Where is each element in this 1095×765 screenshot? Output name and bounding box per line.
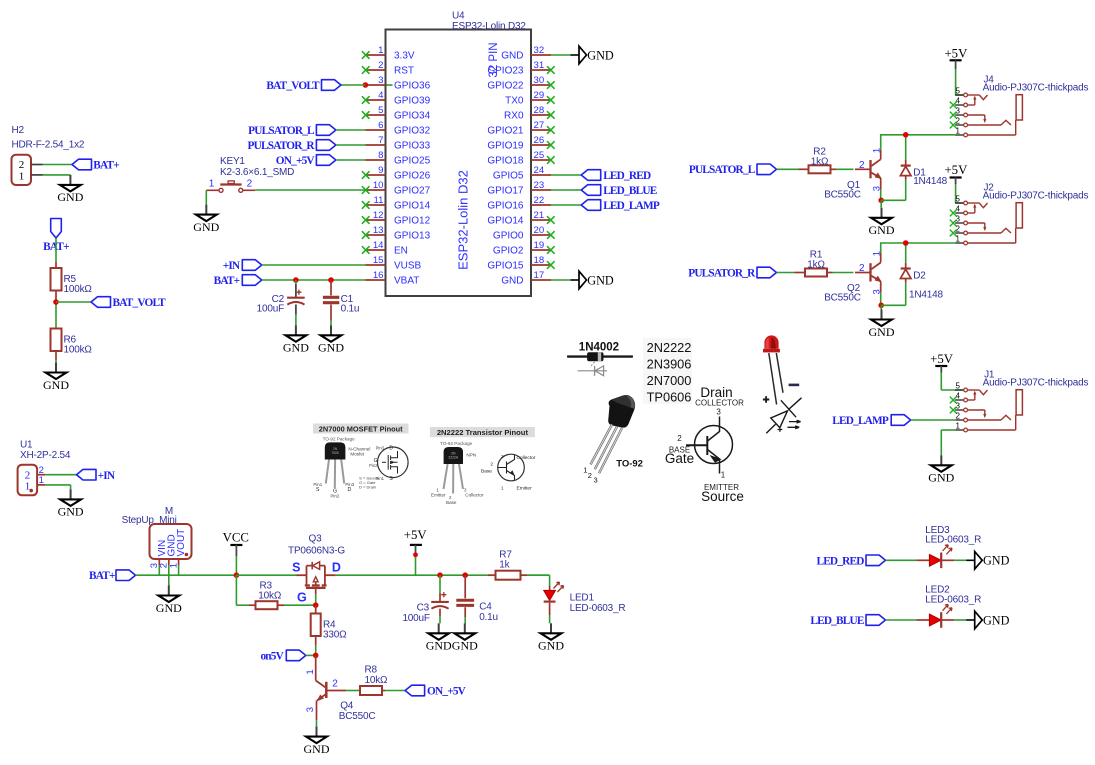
svg-text:Pin2: Pin2 [369,463,378,468]
wire H2 pin 2 to BAT+ [43,164,73,166]
svg-text:31: 31 [534,60,545,71]
ground (J1) [928,455,954,484]
power VCC [223,531,249,557]
svg-text:3: 3 [716,407,721,416]
resistor R1 1k [795,250,833,277]
svg-text:26: 26 [534,135,545,146]
svg-text:1: 1 [721,471,726,480]
ground flag (U4 pin 32) [571,46,614,64]
svg-text:10kΩ: 10kΩ [258,590,282,601]
svg-text:20: 20 [534,225,545,236]
svg-text:8: 8 [378,150,383,161]
ground (Q1) [869,208,895,237]
svg-text:1N4148: 1N4148 [909,290,943,301]
U4 pin 32 (GND) [501,45,551,62]
svg-text:ON_+5V: ON_+5V [276,155,316,167]
svg-text:RST: RST [394,66,414,77]
LED LED2 LED-0603_R [916,585,981,628]
connector H2 HDR-F-2.54_1x2 [12,125,85,185]
svg-text:PULSATOR_R: PULSATOR_R [248,140,316,152]
wire U1 pin 1 to ground [45,485,70,490]
transistor Q4 BC550C [305,655,376,721]
capacitor C3 100uF [402,575,448,624]
U4 pin 16 (VBAT) [366,270,420,287]
svg-text:Audio-PJ307C-thickpads: Audio-PJ307C-thickpads [983,190,1089,201]
ground (M) [156,586,182,615]
svg-text:0.1u: 0.1u [479,612,498,623]
image TO-92 package [583,395,643,484]
wire +5V to J2 pin 5 [955,184,963,203]
ground (LED1) [538,623,564,652]
node rail J2 / D2 [903,240,909,246]
svg-text:BAT+: BAT+ [214,275,240,287]
svg-text:GPIO12: GPIO12 [394,216,431,227]
svg-text:15: 15 [373,255,384,266]
net flag PULSATOR_L (at R2) [689,164,777,176]
svg-text:TP0606: TP0606 [647,390,692,405]
wire U4 to LED_RED flag [551,174,581,176]
connector J1 Audio-PJ307C-thickpads [950,369,1089,432]
svg-text:TO-92: TO-92 [616,458,643,469]
svg-text:100uF: 100uF [402,613,429,624]
svg-text:GPIO14: GPIO14 [394,201,431,212]
U4 pin 27 (GPIO21) [487,120,554,137]
U4 pin 14 (EN) [362,240,408,257]
svg-text:ESP32-Lolin D32: ESP32-Lolin D32 [452,21,526,32]
connector J4 Audio-PJ307C-thickpads [950,74,1089,137]
svg-text:GPIO18: GPIO18 [487,156,524,167]
svg-text:1k: 1k [499,559,510,570]
ground (KEY1) [193,205,219,234]
svg-text:PULSATOR_R: PULSATOR_R [688,267,756,279]
wire R5 to R6 (BAT_VOLT node) [55,300,57,328]
svg-text:GPIO25: GPIO25 [394,156,431,167]
svg-text:KEY1: KEY1 [220,156,245,167]
svg-text:PULSATOR_L: PULSATOR_L [689,164,756,176]
svg-text:PULSATOR_L: PULSATOR_L [248,125,315,137]
svg-text:3: 3 [378,75,383,86]
svg-text:1kΩ: 1kΩ [807,260,825,271]
resistor R7 1k [488,549,527,579]
svg-text:2: 2 [25,469,31,481]
U4 pin 25 (GPIO18) [487,150,554,167]
svg-text:C3: C3 [417,603,430,614]
wire Q1 emitter to ground [880,200,882,208]
wire M pin2 GND to ground [168,565,170,586]
svg-text:2: 2 [677,434,682,443]
svg-text:Emitter: Emitter [517,485,533,491]
node rail J4 / D1 [903,132,909,138]
wire BAT+ to U4 pin 16 [262,279,366,281]
svg-text:TO-92 Package: TO-92 Package [440,441,473,446]
wire node to BAT_VOLT flag [56,301,91,303]
U4 pin 3 (GPIO36) [366,75,431,92]
resistor R2 1k [799,146,837,173]
wire J1 pin 1 to ground [941,430,955,455]
svg-text:1N4002: 1N4002 [579,342,619,354]
svg-text:2N7000 MOSFET Pinout: 2N7000 MOSFET Pinout [319,424,403,433]
svg-text:22: 22 [534,195,545,206]
svg-text:23: 23 [534,180,545,191]
capacitor C4 0.1u [456,575,498,623]
svg-text:Base: Base [446,500,457,505]
wire BAT_VOLT to U4 pin 3 [341,84,365,86]
svg-text:GND: GND [983,613,1010,627]
svg-text:U4: U4 [452,11,465,22]
transistor Q3 TP0606N3-G (P-MOSFET) [288,534,345,605]
svg-text:16: 16 [373,270,384,281]
U4 pin 24 (GPIO5) [493,165,551,182]
wire KEY1 pin 1 to ground [205,190,207,204]
U4 pin 29 (TX0) [505,90,554,107]
wire BAT+ rail to VCC node [136,574,237,576]
svg-text:GPIO13: GPIO13 [394,231,431,242]
svg-text:Pin2: Pin2 [331,494,340,499]
node Q2 emitter [878,303,884,309]
U4 pin 9 (GPIO26) [362,165,431,182]
svg-text:100kΩ: 100kΩ [64,345,93,356]
svg-text:3: 3 [305,707,316,712]
svg-text:GND: GND [283,341,309,355]
power +5V (J1) [930,352,954,373]
label D2 part 1N4148 [909,290,943,301]
svg-text:GPIO32: GPIO32 [394,126,431,137]
svg-text:TP0606N3-G: TP0606N3-G [288,545,345,556]
svg-text:2N2222 Transistor Pinout: 2N2222 Transistor Pinout [437,428,529,437]
svg-text:14: 14 [373,240,384,251]
svg-text:GND: GND [43,378,69,392]
svg-text:1: 1 [501,485,504,490]
svg-text:D: D [389,446,393,452]
ground flag (U4 pin 17) [571,271,614,289]
switch KEY1 K2-3.6x6.1_SMD [206,156,294,193]
svg-text:VBAT: VBAT [394,276,419,287]
svg-text:3: 3 [594,476,598,485]
power +5V (center) [404,528,428,553]
capacitor C2 100uF [257,280,305,325]
svg-text:LED-0603_R: LED-0603_R [570,603,626,614]
wire +5V to J1 pin 5 [941,373,963,391]
svg-text:BC550C: BC550C [824,190,861,201]
wire tick inside U4 at pin 3 [387,84,393,86]
svg-text:29: 29 [534,90,545,101]
svg-text:3: 3 [501,454,504,459]
node C2 junction [293,277,299,283]
U4 pin 1 (3.3V) [362,45,415,62]
U4 pin 23 (GPIO17) [487,180,551,197]
svg-text:2: 2 [859,263,865,274]
wire U4 to LED_LAMP flag [551,204,581,206]
svg-text:Gate: Gate [665,451,694,466]
svg-text:2: 2 [588,471,592,480]
svg-text:5: 5 [378,105,383,116]
svg-text:21: 21 [534,210,545,221]
wire LED_RED to LED3 [886,559,917,561]
svg-text:GND: GND [501,276,523,287]
U4 pin 11 (GPIO14) [362,195,431,212]
diode D2 1N4148 [900,263,926,283]
svg-text:ON_+5V: ON_+5V [427,686,467,698]
node C1 junction [328,277,334,283]
U4 pin 6 (GPIO32) [366,120,431,137]
resistor R5 100k [51,262,93,300]
svg-text:GPIO36: GPIO36 [394,81,431,92]
net flag BAT+ (at U4) [214,275,262,287]
wire R4 to on5V node [315,645,317,655]
svg-text:GPIO16: GPIO16 [487,201,524,212]
svg-text:Base: Base [481,468,492,474]
svg-text:4: 4 [955,392,960,401]
U4 pin 12 (GPIO12) [362,210,431,227]
svg-text:ESP32-Lolin D32: ESP32-Lolin D32 [456,170,471,270]
net flag PULSATOR_R [248,140,336,152]
svg-text:GND: GND [587,273,614,287]
svg-text:7: 7 [378,135,383,146]
svg-text:+5V: +5V [404,528,428,542]
svg-text:100kΩ: 100kΩ [64,284,93,295]
U4 pin 28 (RX0) [504,105,555,122]
net flag BAT+ (divider) [43,219,69,254]
svg-text:1: 1 [305,669,316,674]
wire U1 pin 2 to +IN [45,474,76,476]
label D1 part 1N4148 [913,176,947,187]
wire +5V to J4 pin 5 [955,69,963,95]
svg-text:BAT+: BAT+ [89,570,115,582]
wire R6 to ground [55,360,57,363]
svg-text:1: 1 [378,45,383,56]
svg-text:2N7000: 2N7000 [647,373,692,388]
image red LED photo [763,335,802,433]
svg-text:GPIO2: GPIO2 [493,246,524,257]
svg-text:24: 24 [534,165,545,176]
node C4 rail [462,572,468,578]
svg-text:GPIO15: GPIO15 [487,261,524,272]
svg-text:6: 6 [378,120,383,131]
ground (Q2) [869,310,895,339]
svg-text:GPIO14: GPIO14 [487,216,524,227]
ground (C4) [452,623,478,652]
ground (Q4) [304,727,330,756]
svg-text:25: 25 [534,150,545,161]
svg-text:2N2222: 2N2222 [647,340,692,355]
wire D2 to emitter node [881,283,906,306]
wire rail to D2 [905,243,907,263]
svg-text:LED_RED: LED_RED [816,556,864,568]
svg-text:TX0: TX0 [505,96,524,107]
net flag BAT_VOLT (divider) [91,297,166,309]
svg-text:D = Drain: D = Drain [359,485,376,490]
U4 pin 4 (GPIO39) [362,90,431,107]
U4 pin 30 (GPIO22) [487,75,554,92]
ground (C2) [283,325,309,354]
connector U1 XH-2P-2.54 [18,440,71,496]
svg-text:GND: GND [538,639,564,653]
svg-text:+5V: +5V [944,163,968,177]
image transistor pin-naming symbol [665,385,744,504]
svg-text:Audio-PJ307C-thickpads: Audio-PJ307C-thickpads [983,82,1089,93]
svg-text:G: G [297,590,307,604]
ground (H2) [57,175,83,204]
wire Q4 base to R8 [346,690,360,692]
wire U4 pin 17 to ground flag [551,279,571,281]
wire Q1 collector rail to J4 [880,134,955,136]
svg-text:GND: GND [58,505,84,519]
svg-text:GPIO27: GPIO27 [394,186,431,197]
svg-text:COLLECTOR: COLLECTOR [695,399,744,408]
wire D1 to emitter node [881,180,906,201]
svg-text:27: 27 [534,120,545,131]
svg-text:GPIO39: GPIO39 [394,96,431,107]
transistor Q2 BC550C [824,251,882,304]
node on5V / Q4 collector [313,653,319,659]
svg-text:2222A: 2222A [448,456,459,460]
svg-text:D2: D2 [913,270,926,281]
wire R8 to ON_+5V [385,690,405,692]
net flag LED_LAMP (at J1) [832,415,910,428]
svg-text:HDR-F-2.54_1x2: HDR-F-2.54_1x2 [12,139,85,150]
ground flag (LED2) [966,611,1009,629]
svg-text:11: 11 [374,195,384,206]
svg-text:32: 32 [534,45,545,56]
svg-text:S: S [292,560,300,574]
svg-text:28: 28 [534,105,545,116]
U4 pin 18 (GPIO15) [487,255,554,272]
svg-text:GPIO23: GPIO23 [487,66,524,77]
svg-text:LED_LAMP: LED_LAMP [603,200,660,212]
wire U4 pin 32 to ground flag [551,54,571,56]
net flag ON_+5V (at U4) [276,155,336,167]
ground (R6) [43,363,69,392]
svg-text:XH-2P-2.54: XH-2P-2.54 [20,450,71,461]
wire Q3 drain rail to +5V [336,574,550,576]
svg-text:on5V: on5V [260,650,284,662]
image part list text [643,338,692,405]
svg-text:30: 30 [534,75,545,86]
wire Q4 emitter to ground [316,720,318,727]
svg-text:VOUT: VOUT [176,529,187,557]
U4 pin 22 (GPIO16) [487,195,551,212]
net flag BAT+ (at M) [89,570,135,582]
wire ON_+5V to U4 pin 8 [336,159,366,161]
svg-text:1kΩ: 1kΩ [811,156,829,167]
svg-text:330Ω: 330Ω [323,630,347,641]
svg-text:K2-3.6×6.1_SMD: K2-3.6×6.1_SMD [220,167,294,178]
U4 pin 10 (GPIO27) [362,180,431,197]
resistor R4 330 [311,605,347,645]
svg-text:9: 9 [378,165,383,176]
wire R1 to Q2 base [833,272,854,274]
svg-text:+IN: +IN [223,260,241,272]
wire Q1 collector to rail [880,135,882,150]
wire LED_LAMP to J1 pin 2 [911,419,955,421]
module M StepUp_Mini [122,506,192,568]
svg-text:1: 1 [209,179,215,190]
U4 pin 31 (GPIO23) [487,60,554,77]
LED LED3 LED-0603_R [916,525,981,568]
wire VCC to rail [235,556,237,575]
U4 pin 8 (GPIO25) [366,150,431,167]
wire U4 to LED_BLUE flag [551,189,581,191]
svg-text:GND: GND [426,639,452,653]
U4 pin 15 (VUSB) [366,255,422,272]
resistor R8 10k [360,665,388,696]
net flag on5V [260,650,305,662]
capacitor C1 0.1u [323,280,359,325]
svg-text:Pin3: Pin3 [376,446,385,451]
ground (C1) [318,325,344,354]
resistor R3 10k [249,580,284,609]
image 2N2222 transistor pinout [430,427,536,505]
wire on5V to node [306,654,316,656]
wire +5V stub [415,553,417,575]
svg-text:10: 10 [373,180,384,191]
net flag ON_+5V (at R8) [405,685,467,697]
U4 pin 21 (GPIO14) [487,210,554,227]
svg-text:GND: GND [983,554,1010,568]
svg-text:GND: GND [57,190,83,204]
wire LED_BLUE to LED2 [886,619,917,621]
svg-text:5: 5 [955,195,960,204]
svg-text:1N4148: 1N4148 [913,176,947,187]
svg-text:2: 2 [491,461,494,466]
svg-text:19: 19 [534,240,545,251]
svg-text:GND: GND [869,325,895,339]
node BAT_VOLT divider [53,299,59,305]
svg-text:Collector: Collector [465,492,484,497]
svg-text:BC550C: BC550C [339,711,376,722]
wire Q1 emitter down [880,190,882,201]
svg-text:GPIO26: GPIO26 [394,171,431,182]
svg-text:1: 1 [19,171,25,183]
svg-text:BAT_VOLT: BAT_VOLT [113,297,167,309]
svg-text:GND: GND [318,341,344,355]
node BAT_VOLT at U4 pin 3 [363,82,369,88]
U4 pin 17 (GND) [501,270,551,287]
svg-text:+5V: +5V [930,352,954,366]
svg-text:2: 2 [859,160,865,171]
svg-text:EN: EN [394,246,408,257]
U4 pin 7 (GPIO33) [366,135,431,152]
wire KEY1 pin 2 to U4 pin 10 [255,189,365,191]
net flag BAT+ (at H2) [72,159,119,172]
ground (U1) [58,489,84,518]
svg-text:2N3906: 2N3906 [647,357,692,372]
svg-text:10kΩ: 10kΩ [365,675,389,686]
net flag LED_BLUE [810,615,885,628]
svg-text:C4: C4 [479,602,492,613]
node Q3 gate / R3 / R4 [313,602,319,608]
svg-text:BAT+: BAT+ [93,160,119,172]
diode D1 1N4148 [900,160,926,180]
svg-text:Mosfet: Mosfet [350,451,365,456]
svg-text:Audio-PJ307C-thickpads: Audio-PJ307C-thickpads [983,377,1089,388]
svg-text:LED-0603_R: LED-0603_R [925,594,981,605]
svg-text:GND: GND [501,51,523,62]
svg-text:GPIO5: GPIO5 [493,171,524,182]
svg-text:BAT_VOLT: BAT_VOLT [266,80,320,92]
svg-text:LED_BLUE: LED_BLUE [810,615,864,627]
power +5V (J4) [944,46,968,69]
svg-text:1: 1 [25,481,31,493]
net flag PULSATOR_L [248,125,336,137]
svg-text:2: 2 [247,179,253,190]
wire PULSATOR_L to R2 [777,168,799,170]
wire R3 to gate node [284,604,314,606]
svg-text:LED_RED: LED_RED [603,170,651,182]
svg-text:BC550C: BC550C [824,293,861,304]
svg-text:LED1: LED1 [570,592,595,603]
resistor R6 100k [51,328,93,360]
